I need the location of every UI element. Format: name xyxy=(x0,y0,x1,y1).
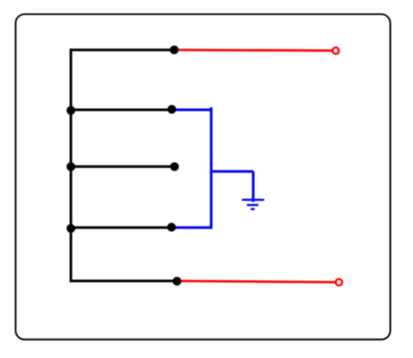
terminal T1: open post top right xyxy=(333,48,339,54)
wire: bottom row black xyxy=(71,280,177,283)
node: junction row 3 left xyxy=(67,162,76,171)
wire: left vertical bus xyxy=(70,49,73,283)
ground symbol GND xyxy=(242,200,264,209)
node: junction bottom row xyxy=(173,277,182,286)
wire: ground stem vertical xyxy=(252,171,255,201)
node: junction row 2 left xyxy=(67,106,76,115)
wire: row 4 black xyxy=(71,226,172,229)
wire: bottom row red lead to terminal T2 xyxy=(177,281,335,282)
wire: row 2 black xyxy=(71,109,172,112)
node: junction row 2 right xyxy=(167,105,176,114)
wire: row 4 blue to vertical xyxy=(172,226,212,229)
wire: row 2 blue to vertical xyxy=(172,109,211,112)
wire: row 3 black xyxy=(71,165,175,168)
node: junction row 4 left xyxy=(67,224,76,233)
wire: blue vertical xyxy=(210,107,213,229)
wire: top row red lead to terminal T1 xyxy=(174,49,331,52)
node: junction row 3 right xyxy=(170,162,179,171)
node: junction top row xyxy=(170,46,179,55)
wire: ground branch horizontal xyxy=(211,170,253,173)
node: junction row 4 right xyxy=(167,223,176,232)
wire: top row black, node A to left bus xyxy=(71,49,174,52)
terminal T2: open post bottom right xyxy=(336,279,342,285)
